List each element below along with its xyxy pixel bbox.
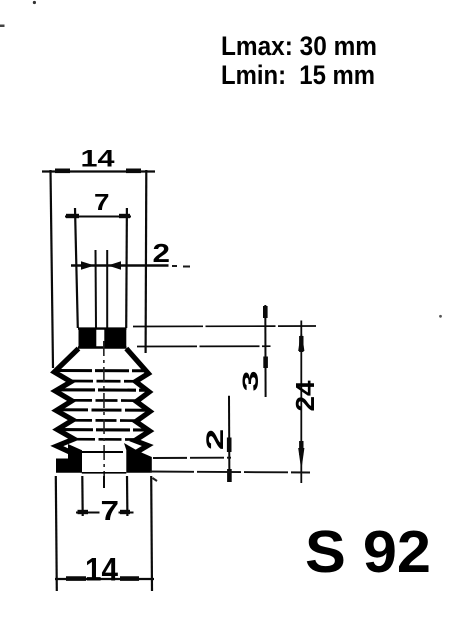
dim line 14 bottom (55, 577, 154, 580)
svg-text:Lmin: 15 mm: Lmin: 15 mm (221, 60, 375, 90)
dim line 7 top (65, 215, 131, 218)
bore right line (106, 250, 108, 328)
bottom centerline stub (103, 476, 105, 488)
collar top edge (78, 327, 127, 329)
tick below flange left (153, 478, 158, 481)
fold line peak3 (58, 408, 148, 411)
fold line valley2 (70, 399, 137, 402)
fold line peak2 (57, 388, 147, 392)
flange bottom opening edge (82, 472, 127, 474)
dim line 7 bottom (76, 511, 134, 514)
extension line left of top 14 (51, 170, 54, 368)
flange neck top edge (80, 451, 123, 453)
svg-text:S 92: S 92 (305, 519, 431, 585)
dim 3 vertical line (264, 305, 266, 397)
centerline vertical (103, 341, 105, 488)
speck left edge (0, 25, 5, 28)
svg-text:Lmax: 30 mm: Lmax: 30 mm (221, 31, 377, 61)
bellows outline left (54, 349, 78, 453)
collar block left (79, 328, 97, 348)
speck top left (33, 1, 36, 4)
collar bottom extension line B (137, 345, 271, 347)
flange bottom dashed extension (150, 472, 310, 473)
flange top dashed extension (153, 457, 231, 459)
speck right mid (439, 315, 442, 318)
svg-text:7: 7 (101, 495, 120, 526)
svg-text:14: 14 (85, 552, 118, 588)
bottom extension line outer left (56, 476, 57, 591)
tube outer left line (75, 208, 78, 328)
fold line valley4 (72, 438, 136, 441)
bottom extension line bore right (126, 476, 129, 516)
bellows outline right (126, 349, 150, 453)
svg-text:24: 24 (290, 380, 320, 412)
dim line 2 with arrows (71, 261, 169, 269)
bottom extension line bore left (81, 476, 84, 516)
flange boot left (56, 444, 82, 473)
svg-text:3: 3 (238, 371, 263, 392)
fold line valley1 (69, 380, 137, 383)
dim 24 vertical line with arrows (298, 321, 304, 484)
fold line peak1 (58, 369, 146, 372)
dim 2 right vertical line (228, 396, 230, 482)
bore left line (95, 250, 98, 328)
tube outer right line (125, 208, 128, 328)
flange boot right (124, 443, 152, 473)
dim line 14 top (42, 170, 155, 173)
svg-text:7: 7 (94, 189, 110, 215)
fold line valley3 (71, 419, 137, 422)
collar top extension line A (133, 325, 316, 328)
svg-text:2: 2 (202, 429, 229, 451)
svg-text:14: 14 (81, 146, 116, 173)
centerline dashes right of 2 dim (172, 265, 190, 268)
collar block right (104, 328, 126, 348)
extension line right of top 14 (145, 170, 148, 353)
fold line peak4 (59, 428, 148, 431)
bottom extension line outer right (150, 476, 153, 591)
collar bottom edge (78, 346, 127, 348)
svg-text:2: 2 (153, 238, 171, 268)
